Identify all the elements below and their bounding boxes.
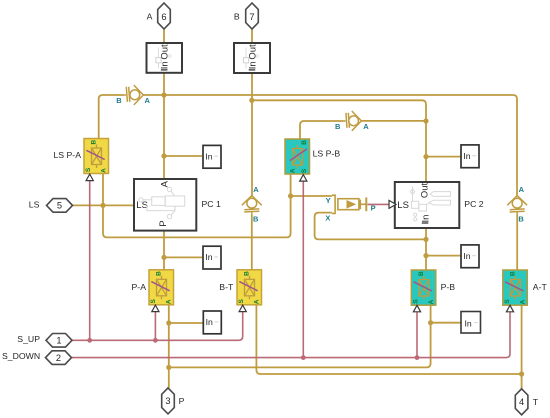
svg-text:P: P [179,396,185,406]
svg-text:B: B [234,11,240,21]
VALVE LS P-A (yellow) [53,139,108,181]
wire branch to In6 [431,322,461,324]
wire T net: B-T A down, across bottom [256,305,521,374]
svg-text:In: In [205,252,212,262]
wire T to hex4 [521,374,523,389]
BLOCK In3 [203,246,221,269]
svg-text:LS P-A: LS P-A [53,150,81,160]
port S_UP (1) hexagon [17,334,72,348]
wire S_UP branch up to LSPA S [89,181,91,340]
wire S_DOWN from hex2, corner up to A-T S [72,312,510,357]
svg-text:S: S [238,298,245,303]
BLOCK In4 [461,245,479,268]
svg-text:B: B [301,140,308,145]
svg-text:B: B [418,271,425,276]
CHECK VALVE CV1 (horizontal, top-left) [124,85,143,105]
wire branch to In4 [426,255,461,257]
wire LS net: LSPA A down, across, up to LSPB A [103,174,291,238]
BLOCK In1 [203,145,221,168]
svg-text:B: B [156,271,163,276]
SHUTTLE VALVE (middle) [325,195,375,222]
svg-text:A: A [519,185,525,194]
BLOCK In5 [203,311,221,334]
input arrow PC2 LS [389,200,396,208]
wire B-branch right, corner down to CV3 junction [252,100,426,121]
junction dots yellow [100,92,524,376]
VALVE P-A (yellow) [132,270,174,312]
svg-text:LS P-B: LS P-B [313,148,341,158]
svg-text:P-B: P-B [441,282,456,292]
svg-text:P: P [371,204,376,213]
wire junction down to PC2 Out [425,121,427,182]
port A (6) hexagon [147,3,171,29]
svg-text:B: B [116,96,122,105]
WIRES-CRIMSON [72,181,510,358]
svg-text:S: S [150,298,157,303]
VALVE A-T (teal) [503,270,548,312]
svg-text:Out: Out [247,44,258,60]
wire CV4 bottom to A-T B [516,214,518,270]
svg-text:A: A [145,96,151,105]
svg-text:A: A [160,180,171,187]
svg-text:7: 7 [249,12,254,22]
svg-text:In: In [247,61,258,69]
VALVE P-B (teal) [411,270,455,312]
CHECK VALVE CV2 (vertical, on B-T line) [242,196,262,215]
port S_DOWN (2) hexagon [2,351,72,365]
svg-text:In: In [160,61,171,69]
CHECK VALVE CV4 (vertical, on A-T line) [507,196,527,215]
svg-text:S: S [412,299,419,304]
wire CV3 A to junction [361,120,426,122]
svg-text:B-T: B-T [219,282,234,292]
svg-text:B: B [518,215,524,224]
port B (7) hexagon [234,3,258,29]
svg-text:In: In [420,215,431,223]
svg-text:In: In [465,318,472,328]
port LS (5) hexagon [29,199,73,213]
svg-text:A: A [428,299,435,304]
svg-text:A: A [166,299,173,304]
wire S_UP from hex1, corner up to B-T S [72,312,243,341]
svg-text:2: 2 [56,353,61,363]
wire InOutB down to CV2 apex [251,73,253,196]
BLOCK In6 [461,312,481,334]
svg-text:P-A: P-A [132,282,147,292]
svg-text:S_DOWN: S_DOWN [2,351,40,361]
svg-text:In: In [463,151,470,161]
svg-text:6: 6 [161,12,166,22]
wire S_UP branch up to P-A S [154,312,156,341]
svg-text:In: In [463,251,470,261]
BLOCK PC1 [134,179,221,231]
svg-text:A: A [290,168,297,173]
wire A-line: LSPA B up, through CV1, across top, down right to CV4 [99,95,125,139]
wire branch to In5 [169,322,204,324]
svg-text:X: X [325,214,330,223]
svg-text:1: 1 [56,336,61,346]
svg-text:In: In [205,151,212,161]
wire InOutA to PC1 A [163,73,165,179]
wire hex7 to InOutB [251,29,253,43]
svg-text:B: B [244,271,251,276]
CHECK VALVE CV3 (horizontal, middle) [344,111,362,131]
svg-text:In: In [206,317,213,327]
svg-text:P: P [158,220,169,226]
WIRES-YELLOW [72,29,521,389]
wire Y branch [291,195,332,197]
VALVE B-T (yellow) [219,270,261,312]
VALVE LS P-B (teal, mirrored) [285,139,340,181]
svg-text:5: 5 [57,201,62,211]
svg-text:3: 3 [165,396,170,406]
BLOCK In2 [461,145,479,168]
svg-text:T: T [533,397,539,407]
BLOCK InOutB [234,43,270,73]
svg-text:A: A [253,185,259,194]
svg-text:Y: Y [326,196,331,205]
wire branch to In1 [164,155,202,157]
wire branch to In3 [164,256,202,258]
svg-text:PC 2: PC 2 [464,199,483,209]
wire S_DOWN branch up to P-B S [416,312,418,357]
svg-text:A: A [147,11,153,21]
svg-text:A: A [254,299,261,304]
svg-text:Out: Out [420,182,431,198]
svg-text:S: S [504,299,511,304]
BLOCK PC2 [389,182,484,228]
wire P net: P-A A down to hex3 [168,305,170,388]
svg-text:LS: LS [397,200,409,211]
svg-text:A-T: A-T [533,282,548,292]
wire CV2 bottom to B-T B [251,214,253,270]
svg-text:B: B [335,122,341,131]
svg-text:LS: LS [29,200,40,210]
svg-text:B: B [91,140,98,145]
svg-text:S_UP: S_UP [17,334,40,344]
wire hex6 to InOutA [163,30,165,44]
wire A-T A down to T net [521,305,523,374]
junction dots crimson [87,338,419,360]
wire shuttle P to PC2 LS [368,203,389,205]
wire CV1 A to right, corner down to CV4 apex [143,95,517,196]
wire X line to PC2 In vertical [315,213,426,240]
svg-text:A: A [101,168,108,173]
port T (4) hexagon [515,389,539,415]
wire PC2 In down to P-B B [425,228,427,270]
wire S_DOWN branch up to LSPB S [302,181,304,357]
svg-text:Out: Out [160,44,171,60]
svg-text:B: B [510,271,517,276]
wire PC1 P down to P-A B [163,231,165,270]
BLOCK InOutA [147,43,183,73]
wire branch to In2 [426,156,461,158]
svg-text:PC 1: PC 1 [202,199,221,209]
svg-text:S: S [301,168,308,173]
svg-text:A: A [363,122,369,131]
wire LSPB B up, corner right to CV3 spring [300,121,344,139]
wire LS hex5 to PC1 LS [72,204,134,206]
wire P net horizontal, up to P-B A [169,305,431,367]
svg-text:S: S [85,167,92,172]
svg-text:4: 4 [519,397,524,407]
port P (3) hexagon [162,388,185,414]
svg-text:A: A [519,299,526,304]
svg-text:B: B [253,215,259,224]
